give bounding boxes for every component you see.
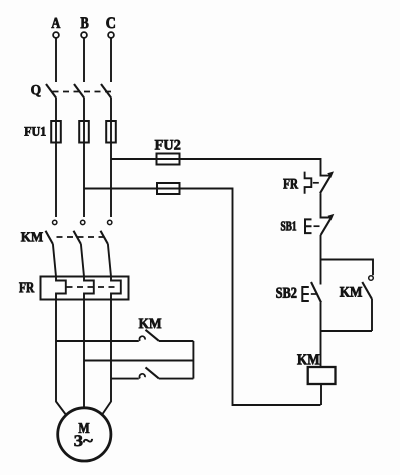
motor M circle — [58, 408, 111, 461]
wire node to KM aux branch (top) — [321, 260, 374, 276]
label 3~ — [74, 435, 92, 446]
switch Q pole B — [74, 84, 84, 98]
pushbutton SB1 (NC) — [321, 214, 335, 236]
wire control branch 1 (C phase to control) — [111, 159, 321, 172]
wire control branch 2 (B phase to control) — [84, 189, 321, 406]
label A — [52, 18, 61, 28]
contactor KM aux contact (NO) — [362, 276, 373, 331]
wire FR to SB1 — [320, 193, 322, 213]
FR heater element A — [56, 277, 66, 300]
contactor KM main contact B — [74, 220, 85, 276]
FR heater element B — [84, 277, 94, 300]
FR heater element C — [111, 277, 121, 300]
fuse FU1 pole C — [106, 121, 116, 143]
wire C: Q to KM — [110, 98, 112, 218]
wire A: FR to motor — [56, 300, 67, 416]
label C — [106, 17, 114, 28]
wire A: Q to KM — [55, 98, 57, 218]
label FR (overload) — [19, 282, 34, 292]
FR linkage (dashed) — [67, 286, 120, 288]
wire C: FR to motor — [102, 300, 112, 416]
fuse FU1 pole B — [79, 121, 89, 143]
SB1 link dash — [314, 225, 320, 227]
wire B: Q to KM — [83, 98, 85, 218]
pushbutton SB2 (NO) — [311, 282, 321, 303]
SB1 actuator E — [305, 219, 312, 233]
fuse FU2 upper — [157, 154, 180, 165]
relay contact FR (control, NC) — [320, 171, 334, 193]
contactor KM main contact C — [101, 220, 112, 276]
FR actuator (control) — [305, 172, 312, 194]
wire bottom branch 3 (phase C, y379) — [111, 378, 139, 380]
label Q — [31, 85, 40, 96]
switch Q pole C — [101, 84, 111, 98]
label B — [81, 17, 89, 28]
wire SB2 to coil — [320, 303, 322, 368]
wire phase C top — [110, 39, 112, 83]
FR actuator link dash — [313, 182, 319, 184]
wire KM aux bottom — [321, 330, 373, 332]
label FU1 — [24, 127, 45, 136]
SB2 link dash — [311, 293, 316, 295]
coil KM — [308, 367, 336, 384]
contactor KM bottom contact 1 — [139, 330, 158, 341]
wire bottom branch 1 right — [159, 340, 194, 342]
wire coil to bottom — [320, 384, 322, 405]
wire phase A top — [55, 39, 57, 83]
fuse FU1 pole A — [51, 121, 61, 143]
thermal relay FR box — [41, 277, 129, 300]
label KM (main contacts) — [21, 232, 43, 241]
label SB1 — [281, 222, 296, 231]
contactor KM bottom contact 2 — [139, 367, 158, 378]
label SB2 — [276, 288, 296, 298]
terminal B — [81, 32, 87, 38]
contactor KM linkage (dashed) — [57, 236, 107, 238]
label KM (aux) — [340, 287, 362, 297]
contactor KM main contact A — [46, 220, 57, 276]
switch Q linkage (dashed) — [53, 91, 114, 93]
wire phase B top — [83, 39, 85, 83]
SB2 actuator E — [302, 287, 309, 301]
wire SB1 to node — [320, 235, 322, 285]
label KM (bottom contacts) — [139, 319, 161, 329]
label M — [79, 423, 90, 433]
label FU2 — [155, 140, 180, 150]
wire bottom branch 2 (phase B, y360.5) — [84, 360, 193, 362]
label KM (coil) — [297, 354, 319, 364]
wire bottom right bar — [192, 341, 194, 379]
wire bottom branch 3 right — [159, 378, 194, 380]
wire bottom branch 1 (phase A, y341) — [56, 340, 139, 342]
fuse FU2 lower — [157, 183, 180, 194]
terminal A — [53, 32, 59, 38]
wire B: FR to motor — [83, 300, 85, 408]
terminal C — [108, 32, 114, 38]
label FR (control) — [283, 179, 298, 189]
switch Q pole A — [46, 84, 56, 98]
